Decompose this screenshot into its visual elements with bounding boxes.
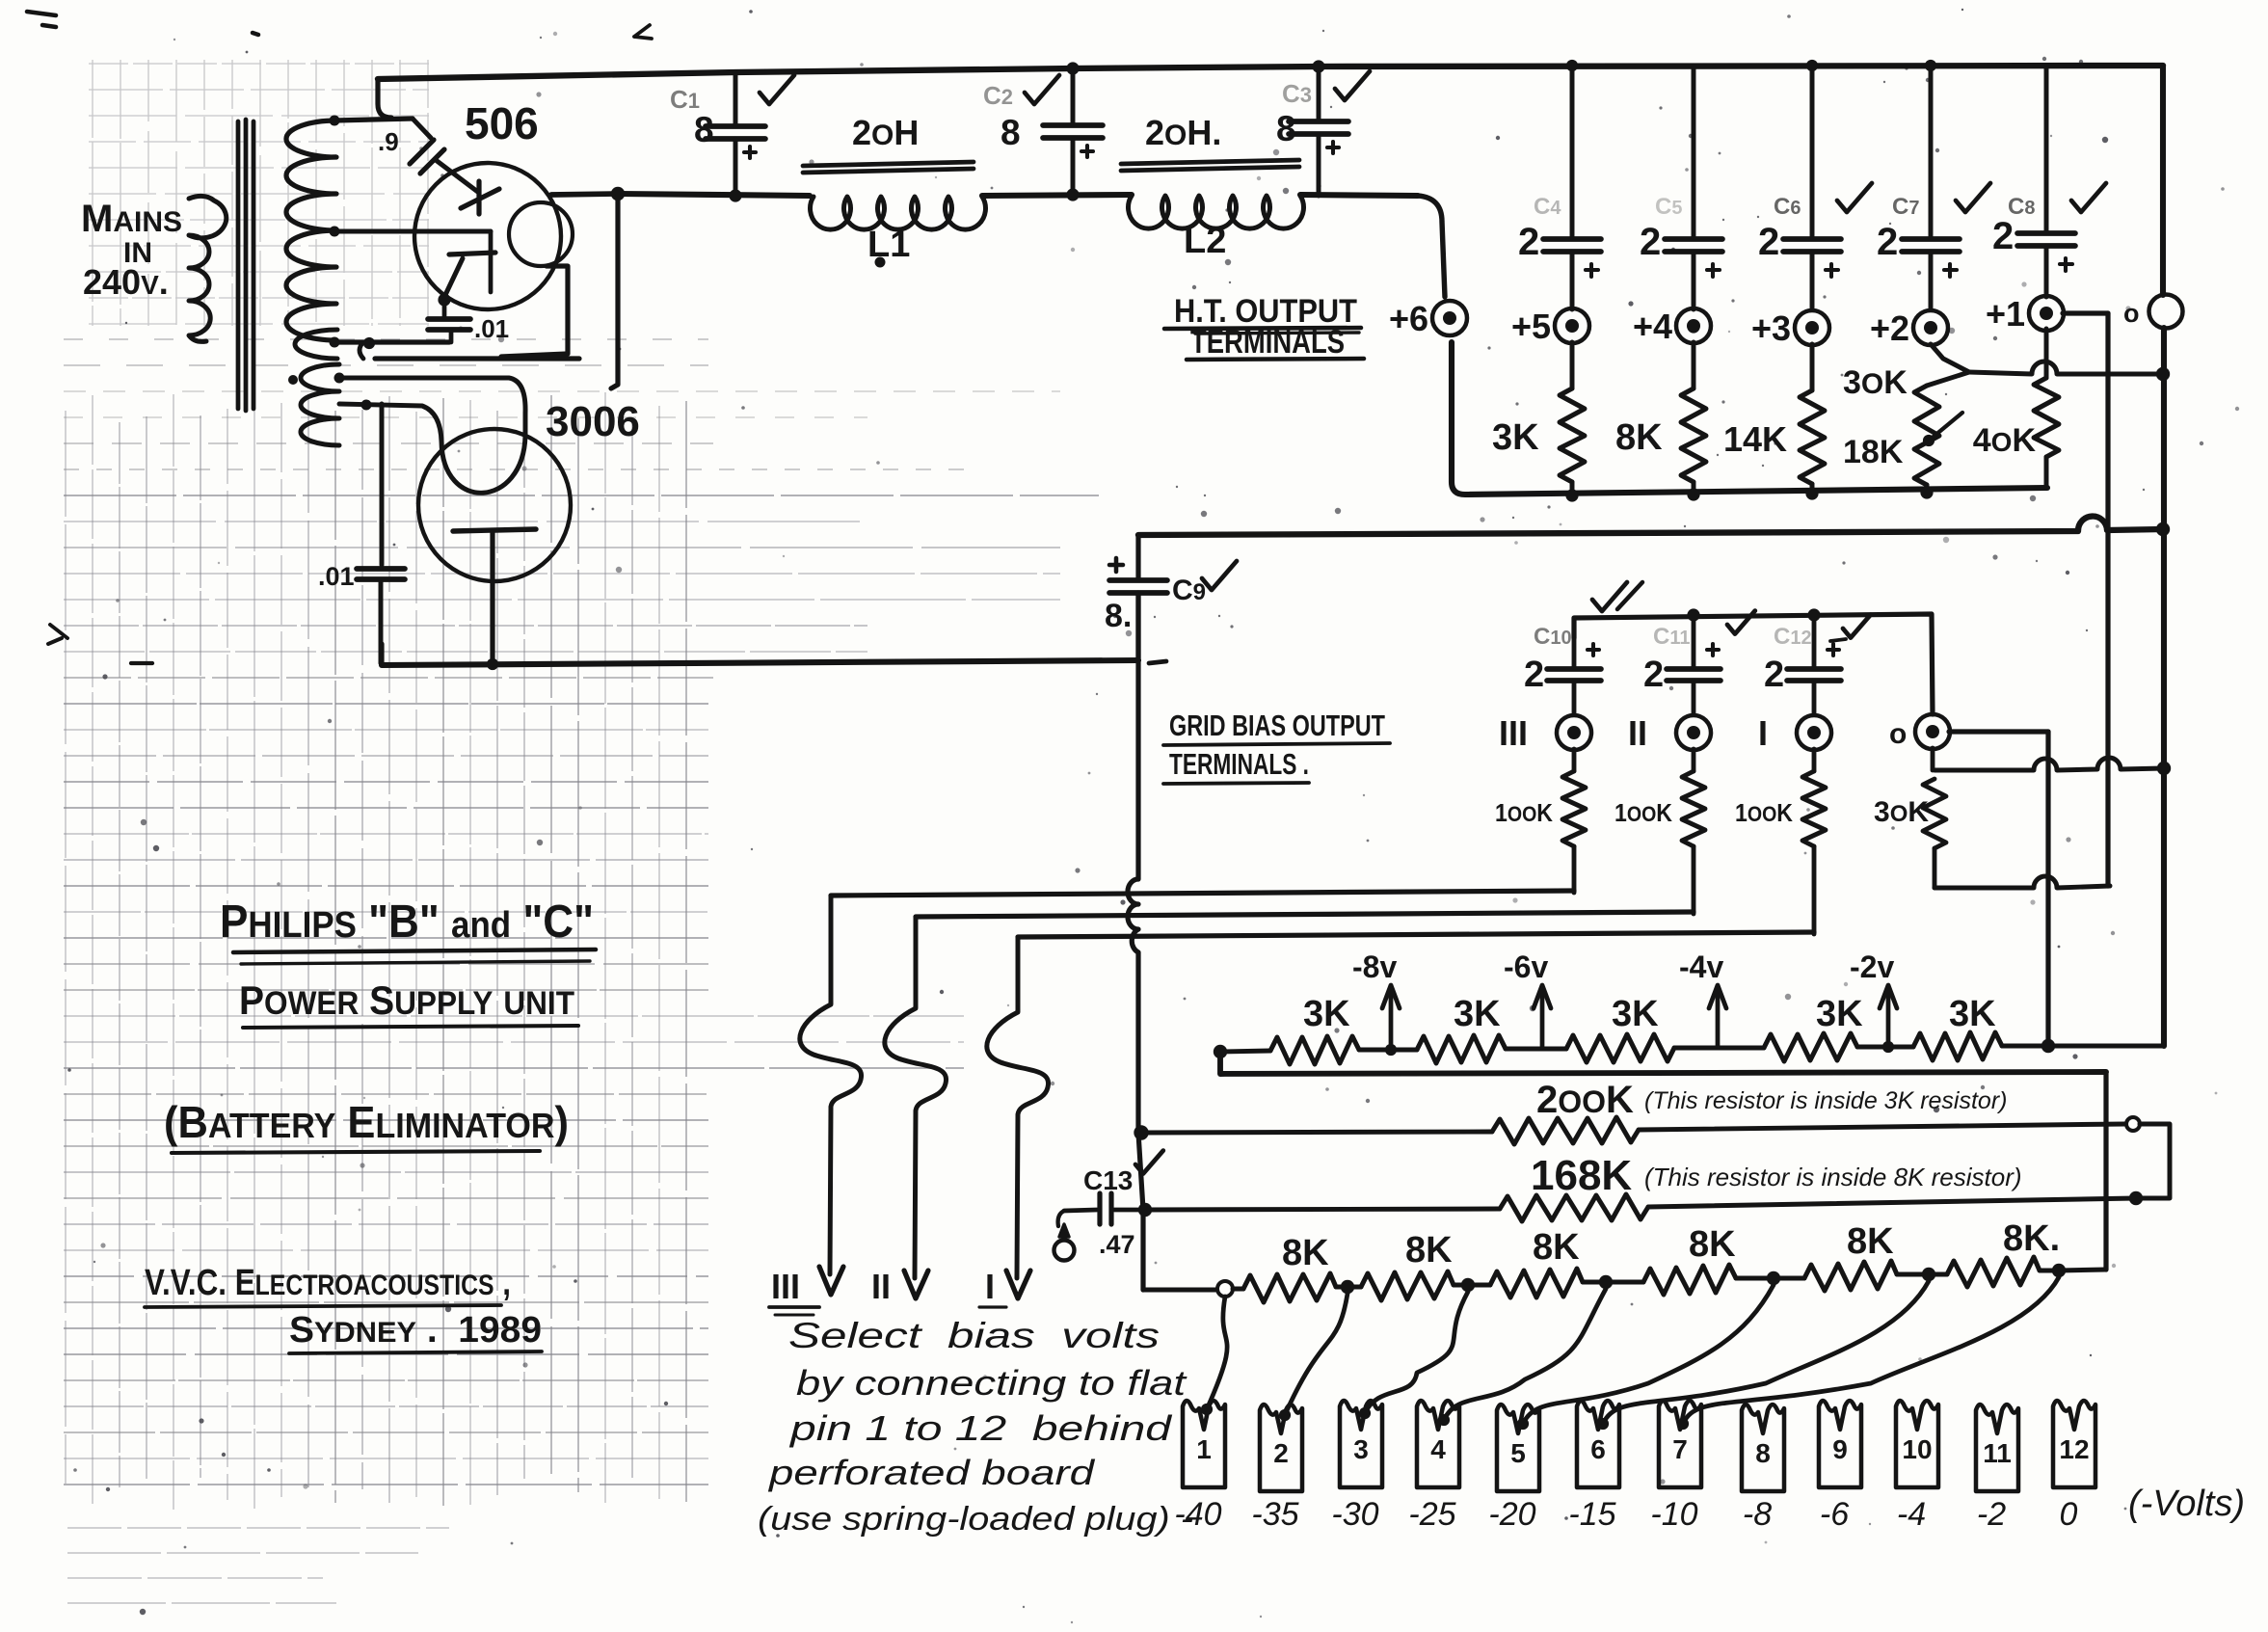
svg-text:+2: +2 [1870, 308, 1909, 348]
wire tap to pin 4 [1444, 1289, 1606, 1420]
resistor 200K [1141, 1132, 1492, 1133]
node C1 rail [729, 189, 741, 201]
svg-text:C2: C2 [983, 81, 1013, 110]
node 8K junction [1922, 1268, 1935, 1281]
pin 3 [1340, 1401, 1382, 1487]
svg-text:11: 11 [1983, 1438, 2012, 1468]
svg-text:8: 8 [1755, 1438, 1771, 1468]
terminal III (grid bias) [1557, 715, 1591, 750]
node tap line right [2156, 367, 2170, 381]
svg-text:-8v: -8v [1352, 950, 1397, 984]
svg-text:III: III [1499, 713, 1528, 753]
choke L1 winding [811, 197, 986, 229]
wire 8K chain right [2059, 1270, 2106, 1271]
capacitor C5 [1692, 66, 1696, 237]
resistor 14K [1810, 344, 1815, 390]
svg-text:-4: -4 [1897, 1496, 1926, 1533]
svg-text:+3: +3 [1751, 308, 1791, 348]
choke L1 core [803, 162, 974, 166]
capacitor C9 [1135, 535, 1140, 578]
stray mark left [48, 625, 67, 644]
node 3K chain at -2V [1882, 1041, 1894, 1053]
wire tap to pin 2 [1285, 1294, 1347, 1415]
svg-text:3OK: 3OK [1843, 364, 1908, 401]
node 8K junction [1461, 1278, 1475, 1292]
svg-text:I: I [985, 1267, 995, 1306]
svg-text:2: 2 [1643, 655, 1664, 695]
arrow tap -8v [1389, 991, 1394, 1048]
svg-text:C8: C8 [2008, 194, 2035, 220]
pin 7 [1659, 1401, 1701, 1487]
svg-text:8: 8 [694, 110, 714, 149]
svg-text:C7: C7 [1892, 194, 1919, 220]
wire 30K top line [1934, 758, 2164, 770]
svg-text:8K: 8K [1405, 1230, 1453, 1271]
svg-text:3K: 3K [1612, 994, 1659, 1034]
capacitor C6 [1810, 66, 1815, 237]
check C1 [760, 75, 794, 104]
pin 4 [1417, 1401, 1459, 1487]
svg-text:1OOK: 1OOK [1495, 798, 1553, 827]
svg-text:12: 12 [2059, 1434, 2089, 1464]
capacitor C3 [1317, 67, 1321, 120]
wire secondary bottom tap [334, 339, 449, 344]
node 8K junction [1341, 1280, 1354, 1294]
capacitor C7 [1929, 66, 1934, 237]
check C10 [1592, 582, 1627, 611]
wire HT rail [618, 194, 810, 196]
svg-text:C10: C10 [1534, 624, 1572, 650]
transformer 3006 heater winding [301, 364, 339, 445]
wire rail from 506 [551, 194, 618, 195]
resistor 3K (HT) [1570, 342, 1575, 388]
pin 9 [1819, 1401, 1861, 1487]
wire 506 heater loop right [501, 266, 568, 357]
terminal I (grid bias) [1797, 715, 1831, 750]
node cathode junction [438, 293, 450, 306]
wire tap to pin 6 [1603, 1281, 1929, 1424]
svg-text:.01: .01 [474, 314, 509, 343]
terminal +1 [2029, 296, 2064, 331]
svg-text:168K: 168K [1531, 1152, 1632, 1199]
wire box edge to C13 node [1138, 1133, 1143, 1210]
pin 5 [1497, 1405, 1539, 1491]
terminal +6 [1432, 301, 1467, 335]
svg-text:-35: -35 [1251, 1496, 1298, 1533]
svg-text:-10: -10 [1650, 1496, 1697, 1533]
svg-text:C12: C12 [1774, 624, 1812, 650]
wire tap to pin 7 [1683, 1277, 2059, 1424]
svg-text:(This resistor is inside 3K re: (This resistor is inside 3K resistor) [1644, 1087, 2007, 1114]
svg-text:pin 1 to 12 behind: pin 1 to 12 behind [789, 1408, 1173, 1448]
svg-text:TERMINALS .: TERMINALS . [1169, 747, 1309, 781]
svg-text:2: 2 [1524, 655, 1544, 695]
rectifier tube 506 envelope [414, 163, 561, 309]
choke L2 winding [1128, 196, 1303, 228]
capacitor .01 (3006) [380, 404, 385, 565]
terminal 0 (HT) [2149, 295, 2183, 329]
node C13 junction [1138, 1203, 1152, 1217]
wire tap to pin 5 [1523, 1285, 1774, 1424]
wire secondary top tap to top bus [334, 119, 413, 120]
check C8 [2071, 183, 2106, 212]
svg-text:2: 2 [1518, 221, 1539, 263]
svg-text:o: o [2123, 299, 2140, 328]
svg-text:-6v: -6v [1504, 950, 1548, 984]
svg-text:18K: 18K [1843, 434, 1904, 470]
svg-text:506: 506 [465, 98, 539, 148]
svg-text:II: II [1628, 713, 1647, 753]
wire jog to heater line [360, 342, 363, 359]
node 3K chain left [1214, 1045, 1227, 1058]
node C2 top [1066, 62, 1079, 74]
svg-text:2: 2 [1992, 215, 2014, 257]
svg-text:3K: 3K [1816, 994, 1863, 1034]
svg-text:.9: .9 [378, 127, 399, 156]
arrow tap -2v [1886, 991, 1891, 1048]
wire III resistor lead [1572, 846, 1577, 893]
svg-text:3006: 3006 [546, 398, 640, 445]
svg-text:C13: C13 [1083, 1165, 1133, 1195]
svg-text:+1: +1 [1986, 294, 2025, 334]
rectifier 506 cathode [449, 253, 495, 254]
node 30K top right [2157, 762, 2171, 775]
wire right edge vertical lower [2161, 328, 2167, 1046]
wire 0V return line [382, 660, 1138, 665]
node C3 top [1312, 60, 1324, 72]
svg-text:.01: .01 [318, 562, 355, 591]
svg-text:8K: 8K [1615, 417, 1663, 458]
svg-text:+5: +5 [1511, 307, 1551, 346]
svg-text:+4: +4 [1633, 307, 1672, 346]
node top bus C6 [1806, 60, 1818, 71]
resistor 100K [1692, 749, 1696, 771]
arrow tap -6v [1540, 991, 1545, 1048]
transformer 506 heater winding [295, 330, 337, 359]
pin 8 [1742, 1405, 1784, 1491]
svg-text:8K: 8K [1533, 1227, 1580, 1268]
svg-text:-40: -40 [1174, 1496, 1221, 1533]
wire rail L1-C2 [982, 195, 1132, 196]
terminal 0 (grid bias) [1915, 714, 1950, 749]
wire top bus left drop [378, 79, 391, 118]
svg-text:2OH.: 2OH. [1145, 113, 1221, 152]
node cap bus C12 [1807, 608, 1820, 621]
wire 30K bottom line [1934, 876, 2110, 888]
node cap bus C11 [1687, 608, 1699, 621]
svg-text:10: 10 [1902, 1434, 1932, 1464]
wire grid-bias cap bus [1574, 614, 1933, 714]
svg-text:1OOK: 1OOK [1735, 798, 1793, 827]
wire 506 heater return line [375, 356, 579, 361]
svg-text:II: II [871, 1267, 891, 1306]
node 3K chain at 0-wire [2041, 1039, 2055, 1053]
node 200K left [1134, 1125, 1148, 1139]
svg-text:-20: -20 [1488, 1496, 1535, 1533]
wire right edge vertical upper [2160, 66, 2166, 295]
transformer T1 primary winding [189, 196, 227, 341]
check C7 [1956, 183, 1990, 212]
svg-text:C3: C3 [1282, 79, 1312, 108]
wire 200K-168K bracket [2140, 1124, 2170, 1198]
wire top bus [378, 66, 2163, 79]
wire select I [987, 937, 1049, 1278]
wire 3006 filament [339, 378, 525, 493]
svg-text:POWER SUPPLY UNIT: POWER SUPPLY UNIT [239, 977, 574, 1023]
svg-text:L2: L2 [1184, 221, 1226, 261]
pin 11 [1976, 1405, 2018, 1491]
wire bundle line II [916, 912, 1694, 917]
wire 8K chain start [1143, 1288, 1215, 1293]
wire 3K chain [1220, 1051, 1270, 1052]
terminal C13 input [1058, 1211, 1064, 1226]
pin 1 [1183, 1401, 1225, 1487]
svg-text:-30: -30 [1331, 1496, 1378, 1533]
svg-text:9: 9 [1832, 1434, 1848, 1464]
svg-text:C11: C11 [1653, 624, 1691, 650]
svg-text:3K: 3K [1949, 994, 1996, 1034]
wire 0 vertical down [2045, 732, 2050, 1048]
wire right vertical from +1 [2105, 313, 2110, 886]
svg-text:.47: .47 [1099, 1230, 1135, 1259]
pin 10 [1896, 1401, 1938, 1487]
wire tap to pin 3 [1365, 1292, 1468, 1413]
resistor 30K (grid bias) [1931, 748, 1935, 770]
terminal +4 [1676, 308, 1711, 343]
capacitor .01 (506) [442, 300, 447, 316]
resistor 168K [1147, 1209, 1500, 1210]
node top bus C7 [1925, 60, 1936, 71]
node 8K open circle [1217, 1281, 1233, 1297]
terminal +2 [1913, 310, 1948, 345]
svg-text:3OK: 3OK [1874, 796, 1929, 828]
wire return drop right [2103, 1072, 2108, 1270]
svg-text:8K: 8K [1847, 1221, 1894, 1262]
svg-text:-4v: -4v [1679, 950, 1723, 984]
wire 30K tap line [1969, 361, 2163, 374]
node bus junction [1687, 320, 1699, 333]
triode tube 3006 envelope [418, 429, 571, 581]
svg-text:2: 2 [1640, 221, 1661, 263]
svg-text:-8: -8 [1743, 1496, 1772, 1533]
svg-text:2OH: 2OH [852, 113, 919, 152]
wire filament tap [334, 229, 491, 234]
node 8K junction [1767, 1271, 1780, 1285]
node rail junction [611, 187, 625, 201]
svg-text:3K: 3K [1454, 994, 1501, 1034]
svg-text:1: 1 [1196, 1434, 1212, 1464]
resistor 100K [1812, 749, 1817, 771]
check C2 [1025, 75, 1059, 104]
svg-text:Select bias volts: Select bias volts [788, 1316, 1160, 1355]
svg-text:(-Volts): (-Volts) [2128, 1484, 2245, 1524]
svg-text:2: 2 [1877, 221, 1898, 263]
wire +1 to right vertical [2063, 310, 2108, 315]
svg-text:-6: -6 [1820, 1496, 1849, 1533]
svg-text:TERMINALS: TERMINALS [1190, 324, 1345, 361]
svg-text:2OOK: 2OOK [1536, 1079, 1634, 1121]
svg-text:8K: 8K [1282, 1233, 1329, 1273]
wire vertical to 8K chain [1140, 1210, 1145, 1290]
node bus junction [1565, 489, 1578, 501]
svg-text:4: 4 [1430, 1434, 1446, 1464]
svg-text:2: 2 [1273, 1438, 1289, 1468]
svg-text:7: 7 [1672, 1434, 1688, 1464]
svg-text:5: 5 [1510, 1438, 1526, 1468]
resistor 30K/18K tapped [1914, 386, 1939, 485]
resistor 8K (HT) [1692, 342, 1696, 388]
svg-text:C5: C5 [1655, 194, 1682, 220]
svg-text:C1: C1 [670, 85, 700, 114]
transformer T1 core [236, 121, 241, 409]
node bus junction [1920, 486, 1933, 498]
arrow tap -4v [1716, 991, 1721, 1048]
node 3006 heater tap [361, 400, 372, 411]
terminal +3 [1795, 310, 1829, 345]
svg-text:C4: C4 [1534, 194, 1561, 220]
wire rail drop to 3006 [611, 194, 618, 388]
svg-text:perforated board: perforated board [768, 1453, 1096, 1492]
svg-text:I: I [1758, 713, 1768, 753]
check C3 [1335, 71, 1370, 100]
wire II resistor lead [1692, 846, 1696, 914]
wire 3K return line [1220, 1052, 2106, 1074]
svg-text:o: o [1889, 718, 1907, 750]
svg-text:by connecting to flat: by connecting to flat [796, 1363, 1188, 1403]
svg-text:L1: L1 [867, 225, 910, 265]
wire select III [800, 896, 862, 1274]
svg-text:3K: 3K [1492, 417, 1539, 458]
svg-text:0: 0 [2060, 1496, 2078, 1533]
capacitor .9 on anode lead [413, 119, 431, 138]
node bus junction [1687, 488, 1699, 500]
pin 6 [1577, 1401, 1619, 1487]
capacitor C13 [1064, 1210, 1097, 1211]
transformer T1 HT secondary winding [286, 120, 336, 340]
svg-text:8K: 8K [1689, 1224, 1736, 1265]
capacitor C12 [1812, 615, 1817, 667]
wire HT resistor bus [1452, 342, 2047, 495]
wire I resistor lead [1812, 846, 1817, 934]
wire bundle line III [831, 891, 1574, 896]
capacitor C8 [2044, 66, 2049, 231]
resistor 40K [2044, 329, 2049, 378]
wire bundle line I [1018, 932, 1814, 937]
resistor 100K [1572, 749, 1577, 771]
terminal +5 [1555, 308, 1589, 343]
node 8K junction [2052, 1264, 2066, 1277]
wire +2 to 30K [1927, 344, 1969, 386]
pin 2 [1260, 1405, 1302, 1491]
check C11 [1727, 611, 1755, 634]
svg-text:-25: -25 [1408, 1496, 1455, 1533]
svg-text:SYDNEY . 1989: SYDNEY . 1989 [289, 1310, 542, 1351]
stray mark top [634, 25, 652, 39]
triode 3006 cathode [453, 529, 536, 531]
svg-text:GRID BIAS OUTPUT: GRID BIAS OUTPUT [1169, 709, 1385, 742]
label minus tick [1149, 661, 1166, 663]
svg-text:-2v: -2v [1850, 950, 1894, 984]
wire 0 terminal to right [1949, 729, 2048, 734]
svg-text:-2: -2 [1977, 1496, 2006, 1533]
node 8K junction [1599, 1275, 1613, 1289]
capacitor C2 [1071, 68, 1076, 123]
wire anode lead into 506 [436, 160, 479, 193]
capacitor C11 [1692, 615, 1696, 667]
node 168K right [2129, 1191, 2143, 1205]
svg-text:14K: 14K [1723, 419, 1787, 459]
svg-text:8: 8 [1001, 113, 1021, 152]
svg-text:2: 2 [1758, 221, 1779, 263]
node 3K chain at -8V [1385, 1044, 1397, 1056]
svg-text:6: 6 [1590, 1434, 1606, 1464]
capacitor C4 [1570, 66, 1575, 237]
svg-text:8K.: 8K. [2003, 1218, 2060, 1259]
wire tap to pin 1 [1207, 1297, 1227, 1409]
svg-text:III: III [771, 1267, 800, 1306]
svg-text:+6: +6 [1389, 299, 1428, 338]
wire rail L2-C3 [1300, 195, 1418, 196]
svg-text:1OOK: 1OOK [1614, 798, 1672, 827]
svg-text:8: 8 [1276, 109, 1296, 148]
rectifier 506 anode [461, 189, 499, 208]
svg-text:3K: 3K [1303, 994, 1350, 1034]
svg-text:3: 3 [1353, 1434, 1369, 1464]
svg-text:(use spring-loaded plug) -: (use spring-loaded plug) - [758, 1501, 1193, 1538]
svg-text:V.V.C. ELECTROACOUSTICS ,: V.V.C. ELECTROACOUSTICS , [145, 1263, 511, 1303]
svg-text:-15: -15 [1568, 1496, 1615, 1533]
svg-text:4OK: 4OK [1973, 422, 2037, 459]
wire 3006 cathode lead [490, 531, 494, 665]
svg-text:2: 2 [1764, 655, 1784, 695]
node top bus C4 [1566, 60, 1578, 71]
resistors 8K chain [1233, 1287, 1243, 1292]
wire rail to +6 terminal [1418, 196, 1445, 297]
svg-text:C6: C6 [1774, 194, 1801, 220]
svg-text:8.: 8. [1105, 598, 1132, 634]
wire box top bus [1138, 517, 2163, 535]
check C12 [1843, 615, 1871, 638]
check C6 [1837, 183, 1872, 212]
check C9 [1202, 561, 1237, 590]
terminal II (grid bias) [1676, 715, 1711, 750]
pin 12 [2053, 1401, 2095, 1487]
svg-text:(This resistor is inside 8K re: (This resistor is inside 8K resistor) [1644, 1163, 2022, 1191]
capacitor C1 [734, 72, 738, 124]
node C2 rail [1066, 188, 1079, 201]
node bus junction [1805, 487, 1818, 499]
capacitor C10 [1572, 618, 1577, 667]
wire select II [885, 917, 947, 1278]
node box top right [2156, 522, 2170, 536]
choke L2 core [1121, 160, 1299, 164]
wire grid-bias box left edge [1128, 593, 1138, 1133]
